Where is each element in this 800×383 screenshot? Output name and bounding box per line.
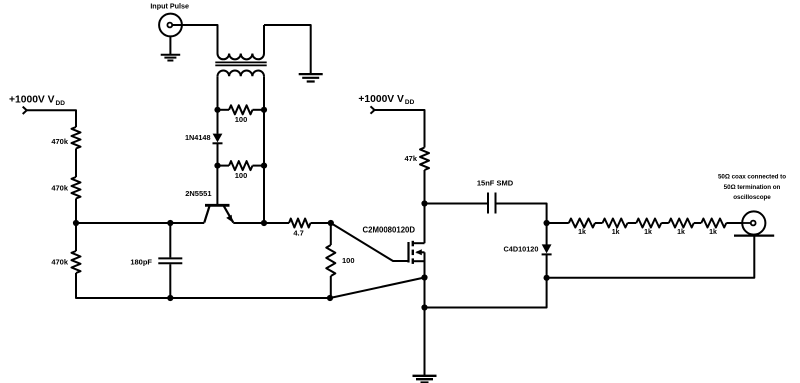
svg-text:1k: 1k (644, 229, 652, 236)
svg-text:1k: 1k (709, 229, 717, 236)
svg-text:Input Pulse: Input Pulse (150, 1, 189, 10)
svg-text:100: 100 (235, 115, 248, 124)
svg-text:C4D10120: C4D10120 (504, 245, 539, 254)
svg-text:180pF: 180pF (130, 258, 152, 267)
svg-text:C2M0080120D: C2M0080120D (363, 226, 416, 235)
svg-text:+1000V V: +1000V V (9, 95, 55, 106)
svg-text:DD: DD (56, 100, 66, 107)
svg-text:1k: 1k (677, 229, 685, 236)
svg-text:+1000V V: +1000V V (358, 94, 404, 105)
svg-text:470k: 470k (51, 137, 69, 146)
svg-text:1k: 1k (578, 229, 586, 236)
svg-text:100: 100 (235, 171, 248, 180)
svg-text:oscilloscope: oscilloscope (733, 194, 771, 201)
svg-text:100: 100 (342, 256, 355, 265)
svg-text:50Ω termination on: 50Ω termination on (724, 184, 781, 191)
svg-text:2N5551: 2N5551 (185, 189, 211, 198)
svg-text:470k: 470k (51, 183, 69, 192)
svg-text:1N4148: 1N4148 (185, 133, 211, 142)
svg-text:4.7: 4.7 (293, 229, 303, 238)
svg-text:50Ω coax connected to: 50Ω coax connected to (718, 174, 786, 181)
svg-text:DD: DD (405, 99, 415, 106)
svg-text:15nF SMD: 15nF SMD (477, 179, 514, 188)
svg-text:470k: 470k (51, 258, 69, 267)
svg-text:47k: 47k (404, 154, 417, 163)
svg-text:1k: 1k (612, 229, 620, 236)
